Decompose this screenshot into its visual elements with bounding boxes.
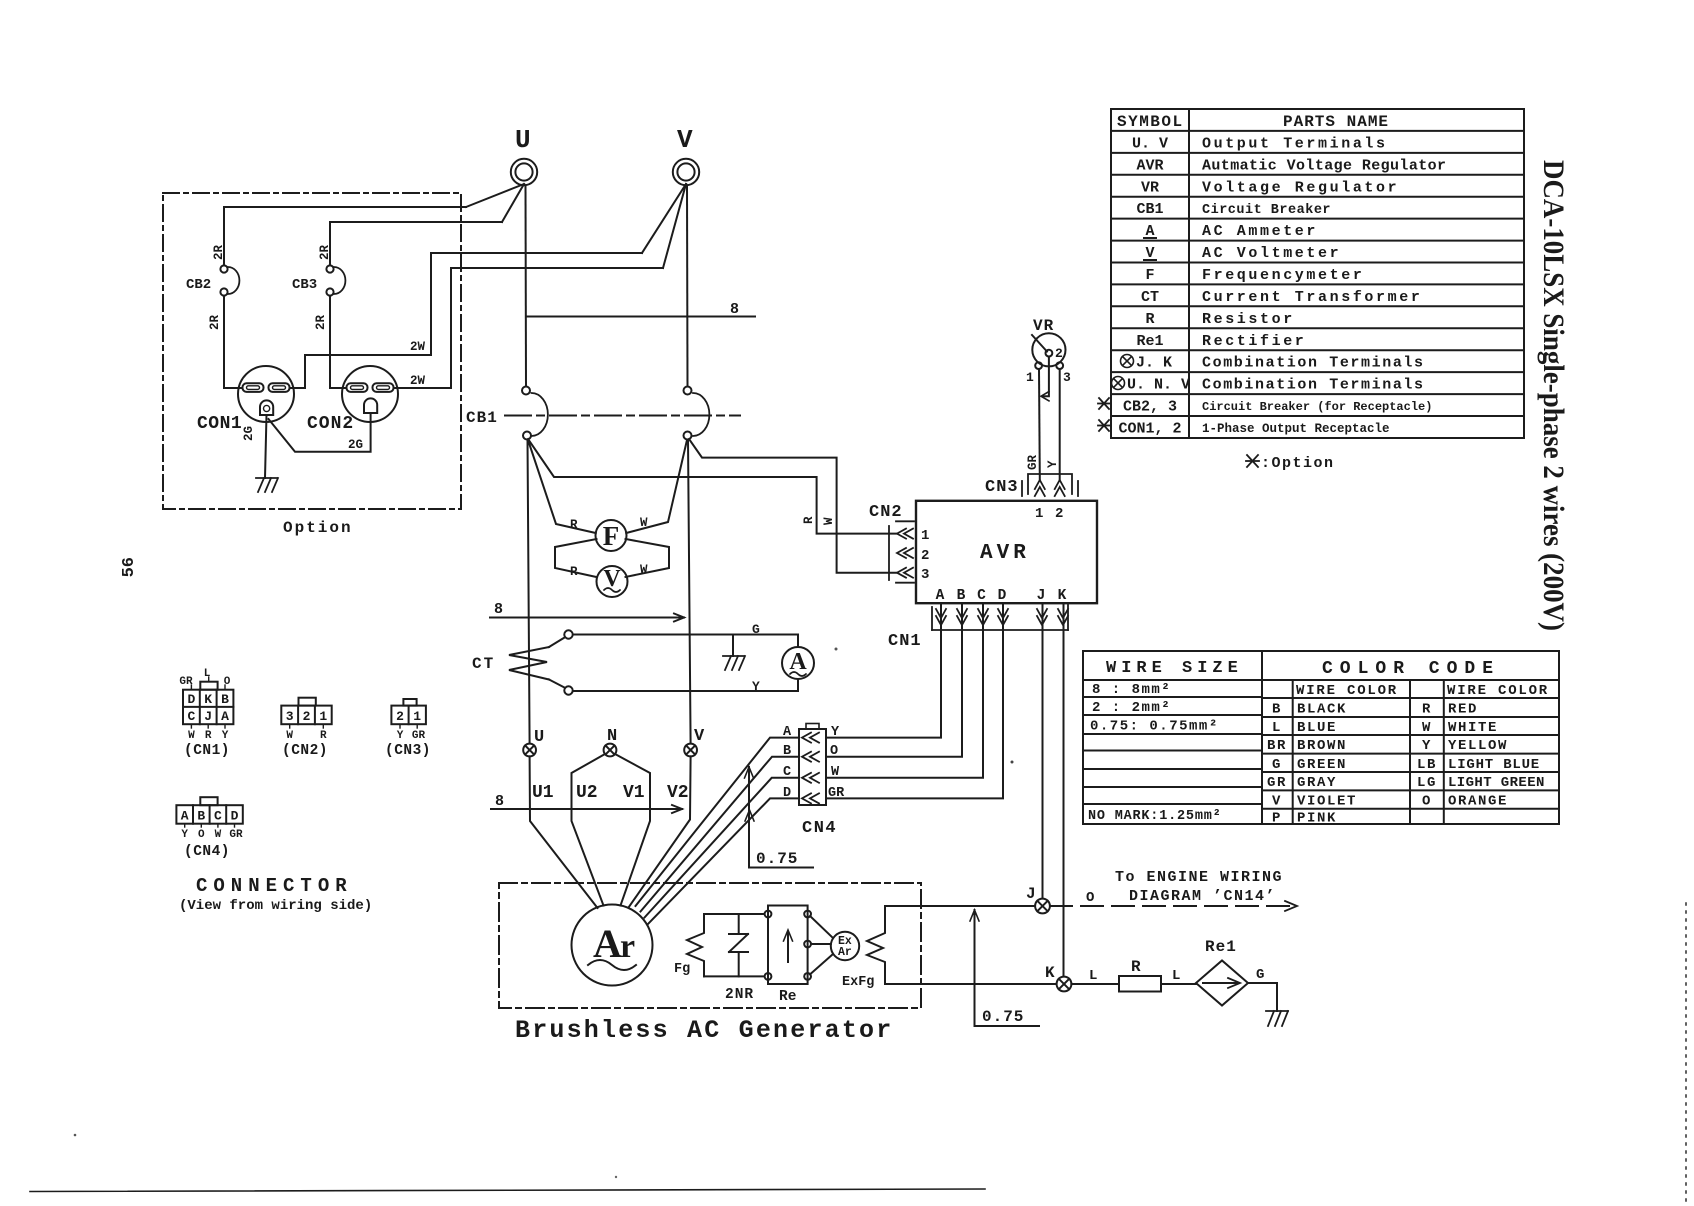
- svg-text:AVR: AVR: [980, 542, 1030, 565]
- wire CN1-B down to CN4: [828, 604, 963, 757]
- svg-text:K: K: [204, 692, 212, 707]
- svg-text:BROWN: BROWN: [1297, 738, 1347, 754]
- svg-text:R: R: [320, 730, 327, 742]
- svg-text:LB: LB: [1417, 757, 1437, 773]
- wire 8 mid arrow: [490, 614, 684, 622]
- svg-text:AC Ammeter: AC Ammeter: [1202, 223, 1318, 240]
- svg-text:K: K: [1058, 588, 1067, 604]
- svg-text:SYMBOL: SYMBOL: [1117, 113, 1184, 131]
- svg-text:R: R: [1131, 958, 1141, 976]
- wire Re to ExAr mid: [811, 943, 831, 945]
- wire V terminal to CB1 right pole: [686, 185, 689, 386]
- svg-text:Circuit Breaker (for Receptacl: Circuit Breaker (for Receptacle): [1202, 400, 1432, 414]
- connector view CN1: [179, 668, 233, 759]
- page bottom rule: [30, 1189, 985, 1192]
- svg-text:O: O: [198, 829, 205, 841]
- svg-text:R: R: [1145, 311, 1154, 328]
- wire CB2 bottom to CON1: [224, 296, 242, 388]
- svg-text:1-Phase Output Receptacle: 1-Phase Output Receptacle: [1202, 422, 1390, 436]
- connector view CN3: [385, 699, 431, 759]
- CN3 pin 2 arrow: [1055, 480, 1065, 496]
- wire V fan to CON1 2W branch: [642, 184, 686, 253]
- meter underline marks in table: [1144, 237, 1156, 239]
- svg-text:2G: 2G: [348, 438, 363, 452]
- CN4 pin A arrow: [802, 733, 819, 743]
- CN3 pin 1 arrow: [1035, 480, 1045, 496]
- wire Re to ExAr bottom: [810, 954, 833, 974]
- wire R from CB1 left pole to CN2 pin1: [528, 439, 897, 534]
- svg-text:Y: Y: [397, 730, 404, 742]
- svg-text:VIOLET: VIOLET: [1297, 794, 1357, 810]
- svg-text:Y: Y: [222, 730, 229, 742]
- svg-text:WIRE SIZE: WIRE SIZE: [1106, 659, 1243, 678]
- svg-text:U: U: [515, 125, 531, 155]
- svg-text:BLUE: BLUE: [1297, 720, 1337, 736]
- CN4 left pin labels: [783, 725, 792, 801]
- svg-text:U. N. V: U. N. V: [1127, 377, 1190, 394]
- combination terminal symbol row 12: [1112, 377, 1125, 390]
- ground symbol right: [1266, 1011, 1288, 1026]
- svg-text:W: W: [215, 829, 222, 841]
- svg-text:W: W: [640, 516, 648, 530]
- svg-text:2: 2: [1055, 506, 1063, 522]
- svg-text:Rectifier: Rectifier: [1202, 333, 1306, 350]
- wire CB1 left pole down to U combination terminal: [528, 440, 530, 744]
- svg-text:1: 1: [1026, 370, 1034, 385]
- svg-text:W: W: [286, 730, 293, 742]
- svg-text:Re1: Re1: [1205, 938, 1237, 956]
- ground symbol CON1: [256, 478, 278, 492]
- svg-text:O: O: [224, 676, 231, 688]
- svg-text:Brushless AC Generator: Brushless AC Generator: [515, 1016, 893, 1045]
- wire 8 stub from U line: [527, 316, 755, 318]
- svg-text:K: K: [1045, 964, 1055, 982]
- svg-text:W: W: [188, 730, 195, 742]
- svg-text:F: F: [1145, 267, 1154, 284]
- svg-text:To ENGINE WIRING: To ENGINE WIRING: [1115, 869, 1283, 886]
- main armature Ar: [572, 905, 653, 986]
- svg-text:B: B: [1272, 702, 1282, 718]
- CN2 pin 3 arrow: [897, 568, 913, 578]
- svg-text:2: 2: [303, 709, 311, 724]
- svg-text:CN4: CN4: [802, 819, 837, 838]
- svg-text:2G: 2G: [242, 426, 256, 441]
- rectifier Re1: [1196, 938, 1248, 1006]
- svg-text:R: R: [802, 516, 816, 524]
- combination terminal K: [1045, 964, 1071, 991]
- output terminal V: [673, 125, 699, 185]
- wire resistor to Re1: [1161, 983, 1196, 985]
- svg-text:8 : 8mm²: 8 : 8mm²: [1092, 682, 1171, 698]
- wire 2W from CON1 right blade to V: [290, 253, 643, 388]
- svg-text:J: J: [204, 709, 212, 724]
- wire field top rail: [704, 913, 765, 915]
- svg-text:V: V: [1272, 794, 1282, 810]
- svg-text:Y: Y: [1046, 460, 1060, 468]
- wire 2W from CON2 right blade to V: [394, 268, 664, 388]
- wire 8 arrow lower: [491, 805, 682, 813]
- frequency meter F: [596, 520, 627, 551]
- parts table rows text: [1118, 136, 1446, 438]
- svg-text:V1: V1: [623, 783, 645, 803]
- svg-text:ORANGE: ORANGE: [1448, 794, 1508, 810]
- svg-text:Combination Terminals: Combination Terminals: [1202, 377, 1425, 394]
- scan speck: [74, 1134, 77, 1137]
- svg-text:C: C: [977, 588, 986, 604]
- svg-text:GR: GR: [412, 730, 426, 742]
- svg-text:8: 8: [494, 601, 503, 618]
- CB1 linkage dash line: [505, 415, 740, 417]
- svg-text:8: 8: [730, 301, 739, 318]
- svg-text:1: 1: [921, 528, 929, 544]
- svg-text:56: 56: [120, 557, 139, 577]
- connector CN4 body: [799, 724, 837, 839]
- svg-text:2: 2: [396, 709, 404, 724]
- svg-text:CB1: CB1: [1136, 201, 1163, 218]
- svg-text:(View from wiring side): (View from wiring side): [179, 898, 372, 914]
- winding lead U2 from N: [572, 754, 606, 906]
- svg-text:PARTS NAME: PARTS NAME: [1283, 113, 1389, 131]
- CN4 pin B arrow: [802, 752, 819, 762]
- svg-text:2: 2: [1055, 346, 1063, 361]
- svg-text:WIRE COLOR: WIRE COLOR: [1447, 683, 1549, 699]
- svg-text::Option: :Option: [1261, 455, 1335, 472]
- svg-text:G: G: [1256, 967, 1264, 983]
- wire size / color code table frame: [1083, 651, 1559, 824]
- svg-text:W: W: [822, 517, 836, 525]
- connector CN2 housing: [889, 521, 914, 582]
- svg-text:WIRE COLOR: WIRE COLOR: [1296, 683, 1398, 699]
- svg-text:(CN3): (CN3): [385, 743, 431, 759]
- svg-text:CB2, 3: CB2, 3: [1123, 399, 1177, 416]
- svg-text:C: C: [187, 709, 195, 724]
- svg-text:2R: 2R: [314, 314, 328, 330]
- svg-text:J. K: J. K: [1136, 355, 1172, 372]
- ammeter A: [782, 647, 814, 679]
- wire CN1-K down to K terminal: [1063, 604, 1065, 976]
- connector view CN4: [176, 797, 243, 860]
- svg-text:R: R: [570, 518, 578, 532]
- receptacle CON2: [307, 366, 398, 434]
- svg-text:DIAGRAM ’CN14’: DIAGRAM ’CN14’: [1129, 888, 1276, 905]
- svg-text:Fg: Fg: [674, 962, 690, 977]
- svg-text:B: B: [221, 692, 229, 707]
- svg-text:CONNECTOR: CONNECTOR: [196, 875, 353, 897]
- svg-text:N: N: [607, 727, 617, 746]
- wire CN4-D to generator: [648, 798, 799, 924]
- svg-text:C: C: [214, 809, 222, 824]
- svg-text:2 : 2mm²: 2 : 2mm²: [1092, 700, 1171, 716]
- svg-text:PINK: PINK: [1297, 811, 1337, 827]
- svg-text:r: r: [620, 928, 635, 965]
- svg-text:8: 8: [495, 793, 504, 810]
- svg-text:CON1, 2: CON1, 2: [1118, 421, 1181, 438]
- wire Re1 to ground: [1248, 983, 1277, 1011]
- svg-text:W: W: [640, 563, 648, 577]
- svg-text:CB2: CB2: [186, 277, 211, 293]
- svg-text:J: J: [1026, 885, 1036, 903]
- svg-text:GRAY: GRAY: [1297, 775, 1337, 791]
- svg-text:J: J: [1037, 588, 1046, 604]
- svg-text:0.75: 0.75mm²: 0.75: 0.75mm²: [1090, 719, 1219, 735]
- svg-text:WHITE: WHITE: [1448, 720, 1498, 736]
- wire K to resistor R: [1071, 983, 1119, 985]
- CN4 pin C arrow: [802, 773, 819, 783]
- exciter field ExFg: [842, 906, 885, 990]
- svg-text:Option: Option: [283, 519, 353, 537]
- svg-text:D: D: [231, 809, 239, 824]
- CN1 pin letters: [936, 588, 1067, 604]
- svg-text:GR: GR: [179, 676, 193, 688]
- connector view CN2: [281, 698, 331, 759]
- svg-text:Circuit Breaker: Circuit Breaker: [1202, 203, 1331, 218]
- svg-text:3: 3: [286, 709, 294, 724]
- svg-text:YELLOW: YELLOW: [1448, 738, 1508, 754]
- rectifier Re: [765, 906, 811, 1006]
- combination terminal symbol row 11: [1121, 355, 1134, 368]
- svg-text:DCA-10LSX Single-phase 2 wire: DCA-10LSX Single-phase 2 wires (200V): [1537, 160, 1570, 631]
- ground symbol mid: [723, 656, 745, 670]
- svg-text:(CN1): (CN1): [184, 743, 230, 759]
- svg-text:2W: 2W: [410, 374, 426, 388]
- scan speck: [615, 1176, 617, 1178]
- svg-text:0.75: 0.75: [982, 1008, 1024, 1026]
- svg-text:Re: Re: [779, 989, 796, 1005]
- svg-text:1: 1: [413, 709, 421, 724]
- svg-text:L: L: [1089, 968, 1097, 984]
- receptacle CON1: [197, 366, 294, 434]
- svg-text:CN2: CN2: [869, 503, 903, 522]
- output terminal U: [511, 125, 537, 185]
- combination terminal V: [684, 727, 705, 756]
- wire Re to ExAr top: [810, 916, 833, 938]
- circuit breaker CB1 right pole: [684, 387, 710, 440]
- CN1 pin J arrow: [1037, 609, 1047, 625]
- svg-text:LIGHT GREEN: LIGHT GREEN: [1448, 775, 1545, 791]
- svg-text:Y: Y: [831, 725, 840, 740]
- wire CB1 right pole down to V combination terminal: [688, 440, 691, 744]
- svg-text:W: W: [1422, 720, 1432, 736]
- svg-text:1: 1: [1035, 506, 1043, 522]
- svg-text:B: B: [957, 588, 966, 604]
- combination terminal U: [523, 728, 544, 756]
- option note under table: [1246, 455, 1259, 467]
- CN1 pin C arrow: [978, 609, 988, 625]
- svg-text:A: A: [936, 588, 945, 604]
- wire V fan to CON2 2W branch: [663, 184, 686, 268]
- svg-text:2W: 2W: [410, 340, 426, 354]
- svg-text:2R: 2R: [208, 314, 222, 330]
- CN1 pin D arrow: [998, 609, 1008, 625]
- svg-text:Current Transformer: Current Transformer: [1202, 289, 1422, 306]
- wire CB3 bottom to CON2: [330, 296, 346, 388]
- svg-text:CT: CT: [472, 655, 495, 673]
- connector CN1 housing: [932, 605, 1068, 630]
- resistor R: [1119, 958, 1161, 992]
- CN1 pin B arrow: [957, 609, 967, 625]
- svg-text:O: O: [1086, 890, 1094, 906]
- wire loop F to V left: [555, 539, 597, 577]
- svg-text:RED: RED: [1448, 702, 1478, 718]
- svg-text:CB1: CB1: [466, 409, 498, 427]
- svg-text:A: A: [789, 649, 807, 675]
- svg-text:BR: BR: [1267, 738, 1287, 754]
- svg-text:GREEN: GREEN: [1297, 757, 1347, 773]
- svg-text:U1: U1: [532, 783, 554, 803]
- svg-text:U: U: [534, 728, 544, 747]
- option dash-dot enclosure box: [163, 193, 461, 509]
- svg-text:O: O: [830, 744, 838, 759]
- svg-text:R: R: [205, 730, 212, 742]
- circuit breaker CB3: [292, 265, 345, 295]
- svg-text:LIGHT BLUE: LIGHT BLUE: [1448, 757, 1540, 773]
- wire stub to ground mid: [732, 635, 734, 657]
- wire field bottom rail: [704, 975, 765, 977]
- combination terminal J: [1026, 885, 1050, 913]
- wire U fan to CB3 branch: [502, 184, 524, 222]
- wire CN4-C to generator: [645, 778, 800, 918]
- svg-text:CB3: CB3: [292, 277, 317, 293]
- option reference mark for CON1,2 row: [1098, 420, 1110, 431]
- right margin dotted rule: [1685, 903, 1687, 1206]
- AVR box: [916, 501, 1097, 603]
- svg-text:U2: U2: [576, 783, 598, 803]
- wire W into F meter: [626, 440, 687, 533]
- wire CN1-J down to J terminal: [1042, 604, 1044, 898]
- wire size callout 0.75 bottom: [970, 910, 1039, 1026]
- svg-text:CON2: CON2: [307, 414, 354, 434]
- svg-text:2: 2: [921, 548, 929, 564]
- svg-text:R: R: [570, 565, 578, 579]
- svg-text:W: W: [831, 765, 840, 780]
- wire CT top to ammeter: [573, 635, 798, 648]
- varistor 2NR: [725, 914, 754, 1003]
- winding lead U1: [530, 756, 598, 908]
- wire CN1-A down to CN4: [828, 604, 942, 738]
- svg-text:Y: Y: [752, 679, 760, 694]
- wire GR from VR pin1 to CN3 pin1: [1038, 369, 1041, 479]
- wire ExFg to K terminal: [885, 983, 1056, 985]
- CN2 pin 2 arrow: [897, 548, 913, 558]
- voltage regulator VR: [1026, 317, 1071, 385]
- CN1 pin A arrow: [936, 609, 946, 625]
- svg-text:0.75: 0.75: [756, 850, 798, 868]
- wire Y from VR pin3 to CN3 pin2: [1059, 369, 1061, 479]
- svg-text:L: L: [1172, 968, 1180, 984]
- svg-text:Y: Y: [1422, 738, 1432, 754]
- wire loop F to V right: [626, 539, 670, 577]
- svg-text:CN3: CN3: [985, 478, 1019, 497]
- option reference mark for CB2,3 row: [1098, 398, 1110, 409]
- svg-text:B: B: [197, 809, 205, 824]
- winding lead V1 from N: [615, 754, 650, 906]
- svg-text:Autmatic Voltage Regulator: Autmatic Voltage Regulator: [1202, 157, 1446, 174]
- CN2 pin 1 arrow: [897, 529, 913, 539]
- svg-text:L: L: [204, 668, 211, 680]
- wire size callout 0.75 at CN4: [745, 767, 814, 868]
- svg-text:Ar: Ar: [838, 946, 852, 959]
- svg-text:VR: VR: [1033, 317, 1054, 335]
- svg-text:NO MARK:1.25mm²: NO MARK:1.25mm²: [1088, 809, 1222, 824]
- wire ammeter bottom to CT: [573, 679, 798, 691]
- wire CN1-D down to CN4: [828, 604, 1004, 798]
- svg-text:3: 3: [1063, 370, 1071, 385]
- svg-text:A: A: [181, 809, 189, 824]
- connector CN3 housing: [1022, 474, 1078, 496]
- svg-text:Frequencymeter: Frequencymeter: [1202, 267, 1364, 284]
- svg-text:AVR: AVR: [1136, 157, 1163, 174]
- wire CN4-A to generator: [636, 738, 800, 906]
- wire CON1 ground lead: [265, 415, 267, 478]
- svg-text:Resistor: Resistor: [1202, 311, 1295, 328]
- voltmeter V: [597, 566, 628, 597]
- winding lead V2: [629, 756, 691, 907]
- svg-text:U. V: U. V: [1132, 136, 1168, 153]
- svg-text:2NR: 2NR: [725, 987, 754, 1003]
- svg-text:V2: V2: [667, 783, 689, 803]
- circuit breaker CB2: [186, 265, 239, 295]
- CN1 pin K arrow: [1058, 609, 1068, 625]
- svg-text:ExFg: ExFg: [842, 975, 874, 990]
- svg-text:GR: GR: [229, 829, 243, 841]
- wire CN1-C down to CN4: [828, 604, 984, 778]
- wire U fan to CB2 branch: [466, 184, 524, 207]
- current transformer CT: [472, 630, 573, 694]
- svg-text:CON1: CON1: [197, 414, 242, 434]
- svg-text:CN1: CN1: [888, 632, 922, 651]
- svg-text:O: O: [1422, 794, 1432, 810]
- wire U terminal to CB1 left pole: [525, 185, 528, 386]
- parts table frame: [1111, 109, 1524, 438]
- svg-text:G: G: [1272, 757, 1282, 773]
- svg-text:3: 3: [921, 567, 929, 583]
- svg-text:2R: 2R: [318, 244, 332, 260]
- svg-text:AC Voltmeter: AC Voltmeter: [1202, 245, 1341, 262]
- wire CB3 top to node: [330, 222, 502, 265]
- wire ExFg to J terminal: [885, 905, 1035, 907]
- svg-text:CT: CT: [1141, 289, 1159, 306]
- CN4 right wire labels: [828, 725, 845, 801]
- field winding Fg: [674, 914, 704, 977]
- svg-text:VR: VR: [1141, 179, 1159, 196]
- svg-text:L: L: [1272, 720, 1282, 736]
- svg-text:R: R: [1422, 702, 1432, 718]
- svg-text:Y: Y: [181, 829, 188, 841]
- scan speck: [835, 648, 838, 651]
- svg-text:Voltage Regulator: Voltage Regulator: [1202, 179, 1399, 196]
- svg-text:(CN4): (CN4): [184, 844, 230, 860]
- svg-text:GR: GR: [1026, 454, 1040, 470]
- svg-text:1: 1: [319, 709, 327, 724]
- brushless AC generator dash box: [499, 883, 921, 1008]
- svg-text:V: V: [677, 125, 693, 155]
- svg-text:F: F: [603, 521, 620, 551]
- wire W from CB1 right pole to CN2 pin3: [689, 439, 897, 573]
- svg-text:Combination Terminals: Combination Terminals: [1202, 355, 1425, 372]
- combination terminal N: [604, 727, 618, 756]
- svg-text:G: G: [752, 622, 760, 637]
- svg-text:(CN2): (CN2): [282, 743, 328, 759]
- svg-text:A: A: [221, 709, 229, 724]
- scan speck: [1011, 761, 1014, 764]
- svg-text:Output Terminals: Output Terminals: [1202, 136, 1388, 153]
- wire R into F meter: [528, 440, 596, 533]
- svg-text:Re1: Re1: [1136, 333, 1163, 350]
- exciter armature ExAr: [831, 932, 859, 960]
- svg-text:D: D: [187, 692, 195, 707]
- svg-text:2R: 2R: [212, 244, 226, 260]
- wire size rows: [1088, 682, 1222, 824]
